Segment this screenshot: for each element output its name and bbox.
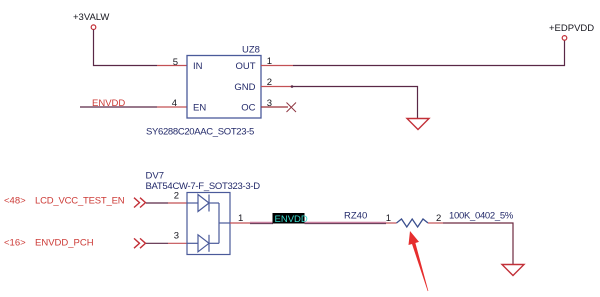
svg-text:SY6288C20AAC_SOT23-5: SY6288C20AAC_SOT23-5 [146,127,254,138]
svg-text:+EDPVDD: +EDPVDD [549,23,594,34]
wire U28 pin 1 to +EDPVDD [293,40,565,65]
wire ENVDD to U28 pin 4 [80,106,157,108]
op-amp U28 body SY6288 [187,56,261,119]
U28 pin 5 stub [157,65,187,67]
svg-text:IN: IN [193,61,203,72]
svg-text:EN: EN [193,103,206,114]
wire ENVDD label to RZ40 pin 1 (highlighted net) [305,222,387,223]
svg-text:<16>: <16> [4,237,26,248]
DV7 pin 1 stub [230,222,250,224]
svg-text:OC: OC [241,103,255,114]
wire DV7 pin 1 to ENVDD label (highlighted net) [250,222,273,223]
svg-text:<48>: <48> [4,195,26,206]
ground (U28 GND) [407,119,429,130]
off-page chevron ENVDD_PCH [134,238,146,248]
RZ40 pin 1 stub [386,222,397,224]
junction on pin 2 wire [291,85,294,88]
svg-text:+3VALW: +3VALW [73,12,109,23]
svg-text:2: 2 [436,213,441,224]
wire chevron to DV7 pin 2 [146,202,168,204]
svg-text:4: 4 [172,98,177,109]
DV7 pin 2 stub [168,202,187,204]
svg-text:1: 1 [386,213,391,224]
svg-text:GND: GND [234,82,255,93]
svg-text:BAT54CW-7-F_SOT323-3-D: BAT54CW-7-F_SOT323-3-D [146,181,261,192]
no-connect X on pin 3 [287,103,297,113]
off-page chevron LCD_VCC_TEST_EN [134,198,146,208]
power symbol +EDPVDD [549,23,594,40]
svg-text:3: 3 [174,231,179,242]
wire chevron to DV7 pin 3 [146,242,168,244]
svg-text:2: 2 [174,191,179,202]
power symbol +3VALW [73,12,109,30]
svg-text:ENVDD_PCH: ENVDD_PCH [35,237,94,248]
svg-text:RZ40: RZ40 [344,211,367,222]
resistor RZ40 [397,219,429,227]
svg-text:UZ8: UZ8 [242,45,260,56]
svg-text:5: 5 [173,57,178,68]
annotation red arrow pointing at RZ40 [409,231,429,291]
wire RZ40 pin 2 to ground [443,223,513,264]
node ENVDD highlighted net label [273,213,308,225]
ground (RZ40) [502,265,524,276]
U28 pin 4 stub [157,106,187,108]
U28 pin 1 stub [261,65,293,67]
svg-text:OUT: OUT [235,61,255,72]
svg-text:ENVDD: ENVDD [275,214,308,225]
U28 pin 2 stub [261,86,292,88]
diode DV7 body [187,193,230,255]
svg-text:LCD_VCC_TEST_EN: LCD_VCC_TEST_EN [35,195,125,206]
RZ40 pin 2 stub [428,222,443,224]
svg-text:1: 1 [238,213,243,224]
wire U28 pin 2 to ground [292,87,418,119]
DV7 pin 3 stub [168,242,187,244]
U28 pin 3 stub [261,106,288,108]
svg-text:100K_0402_5%: 100K_0402_5% [449,211,514,222]
wire +3VALW to U28 pin 5 [94,30,158,66]
